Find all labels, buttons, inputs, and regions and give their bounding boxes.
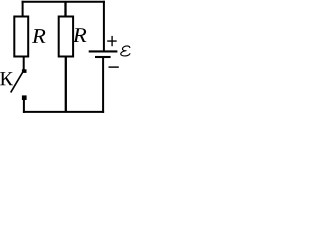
node: switch bottom contact dot (22, 95, 27, 100)
switch K blade (open, swung to lower-left) (11, 73, 23, 93)
resistor R1 (left, rectangle body) (14, 17, 28, 57)
wire: bottom horizontal bus (23, 111, 104, 113)
battery positive plate (long) (89, 50, 118, 52)
label + (positive terminal) (107, 36, 117, 46)
wire: stub from R2 bottom down to bottom bus (65, 57, 67, 112)
wire: top horizontal bus (22, 1, 105, 3)
wire: from battery negative plate down to bottom bus (102, 57, 104, 113)
wire: from switch bottom contact down to bottom bus (23, 99, 25, 113)
node: switch top contact dot (22, 69, 27, 73)
wire: stub from R1 bottom to switch top contact (23, 57, 25, 71)
label R (value of R1) (32, 29, 46, 43)
wire: stub from top bus down to resistor R2 top (64, 2, 66, 17)
label R (value of R2) (73, 28, 87, 42)
label EMF script-E (electromotive force) (121, 46, 130, 56)
resistor R2 (middle, rectangle body) (59, 17, 73, 57)
wire: stub from top bus down to resistor R1 top (22, 1, 24, 17)
battery negative plate (short) (95, 56, 111, 58)
label К (switch designator) (0, 72, 13, 85)
wire: from top bus right corner down to battery positive plate (103, 1, 105, 51)
label - (negative terminal) (109, 66, 119, 68)
